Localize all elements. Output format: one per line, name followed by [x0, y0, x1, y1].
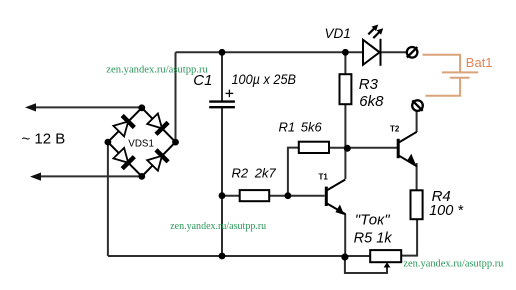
wire AC input top [30, 106, 142, 108]
bridge rectifier VDS1 edges [108, 108, 176, 177]
wire T1 emitter down to bottom node [344, 214, 346, 257]
svg-text:zen.yandex.ru/asutpp.ru: zen.yandex.ru/asutpp.ru [106, 64, 208, 75]
capacitor C1 [209, 102, 235, 108]
svg-text:T1: T1 [319, 173, 329, 182]
node T1 emitter at bottom rail [341, 253, 348, 260]
wire bridge left node down to bottom rail [107, 142, 109, 256]
svg-text:VDS1: VDS1 [128, 138, 154, 149]
svg-text:R5: R5 [354, 230, 373, 246]
wire LED cathode to terminal X1 [380, 51, 406, 53]
svg-text:5k6: 5k6 [301, 119, 323, 134]
node C1 at top rail [219, 49, 226, 56]
wire R3 top lead [344, 52, 346, 74]
node C1 at bottom rail [219, 253, 226, 260]
wire bottom rail [108, 255, 370, 257]
resistor R4 [411, 190, 423, 219]
terminal X1 [407, 47, 418, 58]
wire R1 left stub [288, 148, 299, 196]
wire R5 wiper loop [345, 257, 387, 273]
resistor R1 [299, 142, 329, 153]
svg-text:100 *: 100 * [429, 203, 464, 219]
svg-text:VD1: VD1 [325, 26, 351, 41]
svg-text:100µ x 25В: 100µ x 25В [232, 71, 297, 87]
arrowhead AC bottom [30, 173, 41, 181]
battery Bat1 wiring [423, 55, 479, 96]
svg-text:"Ток": "Ток" [355, 212, 390, 229]
wire R5 right lead up to R4 bottom [401, 219, 417, 255]
transistor T1 [326, 180, 345, 215]
wire AC input bottom [36, 175, 142, 177]
svg-text:~ 12 В: ~ 12 В [22, 130, 66, 147]
wire C1 bottom lead [221, 108, 223, 256]
wire C1 top lead [221, 52, 223, 101]
transistor T2 [398, 132, 417, 167]
node bridge left [105, 139, 112, 146]
node bridge right [172, 139, 179, 146]
R5 wiper arrow [384, 262, 391, 267]
C1 plus sign [226, 90, 234, 98]
node R2 left on C1 lead [219, 192, 226, 199]
wire R2 right lead to T1 base [269, 195, 324, 197]
svg-text:2k7: 2k7 [254, 165, 277, 180]
svg-text:6k8: 6k8 [359, 93, 384, 110]
arrowhead AC top [25, 103, 36, 111]
svg-text:zen.yandex.ru/asutpp.ru: zen.yandex.ru/asutpp.ru [403, 258, 504, 269]
resistor R2 [240, 190, 270, 201]
resistor R3 [340, 74, 352, 104]
diode D a (left to top) [113, 116, 134, 137]
svg-text:Bat1: Bat1 [466, 55, 493, 70]
wire top rail [176, 51, 364, 53]
LED VD1 [363, 25, 383, 66]
node bridge top [138, 104, 145, 111]
diode D c (left to bottom) [113, 148, 134, 169]
svg-text:R1: R1 [279, 119, 296, 134]
wire bridge right node up to top rail [175, 52, 177, 142]
svg-text:R3: R3 [359, 76, 379, 93]
svg-text:T2: T2 [390, 124, 400, 133]
wire R4 top lead from T2 emitter [416, 163, 418, 190]
svg-text:zen.yandex.ru/asutpp.ru: zen.yandex.ru/asutpp.ru [170, 221, 267, 232]
svg-text:1k: 1k [376, 230, 392, 246]
terminal X2 [412, 100, 423, 111]
potentiometer R5 [370, 250, 401, 262]
wire T2 collector to terminal X2 [416, 111, 418, 132]
node R2/R1/T1 base [285, 192, 292, 199]
diode D b (top to right) [147, 114, 168, 135]
wire R3 bottom to T1 collector node [344, 104, 346, 179]
node R1/R3/T2 base [344, 145, 351, 152]
node bridge bottom [138, 173, 145, 180]
diode D d (bottom to right) [147, 150, 168, 171]
node R3/VD1 at top rail [342, 49, 349, 56]
svg-text:R2: R2 [232, 165, 249, 180]
wire R2 left lead [222, 195, 240, 197]
wire R1 right to T2 base [329, 147, 397, 149]
